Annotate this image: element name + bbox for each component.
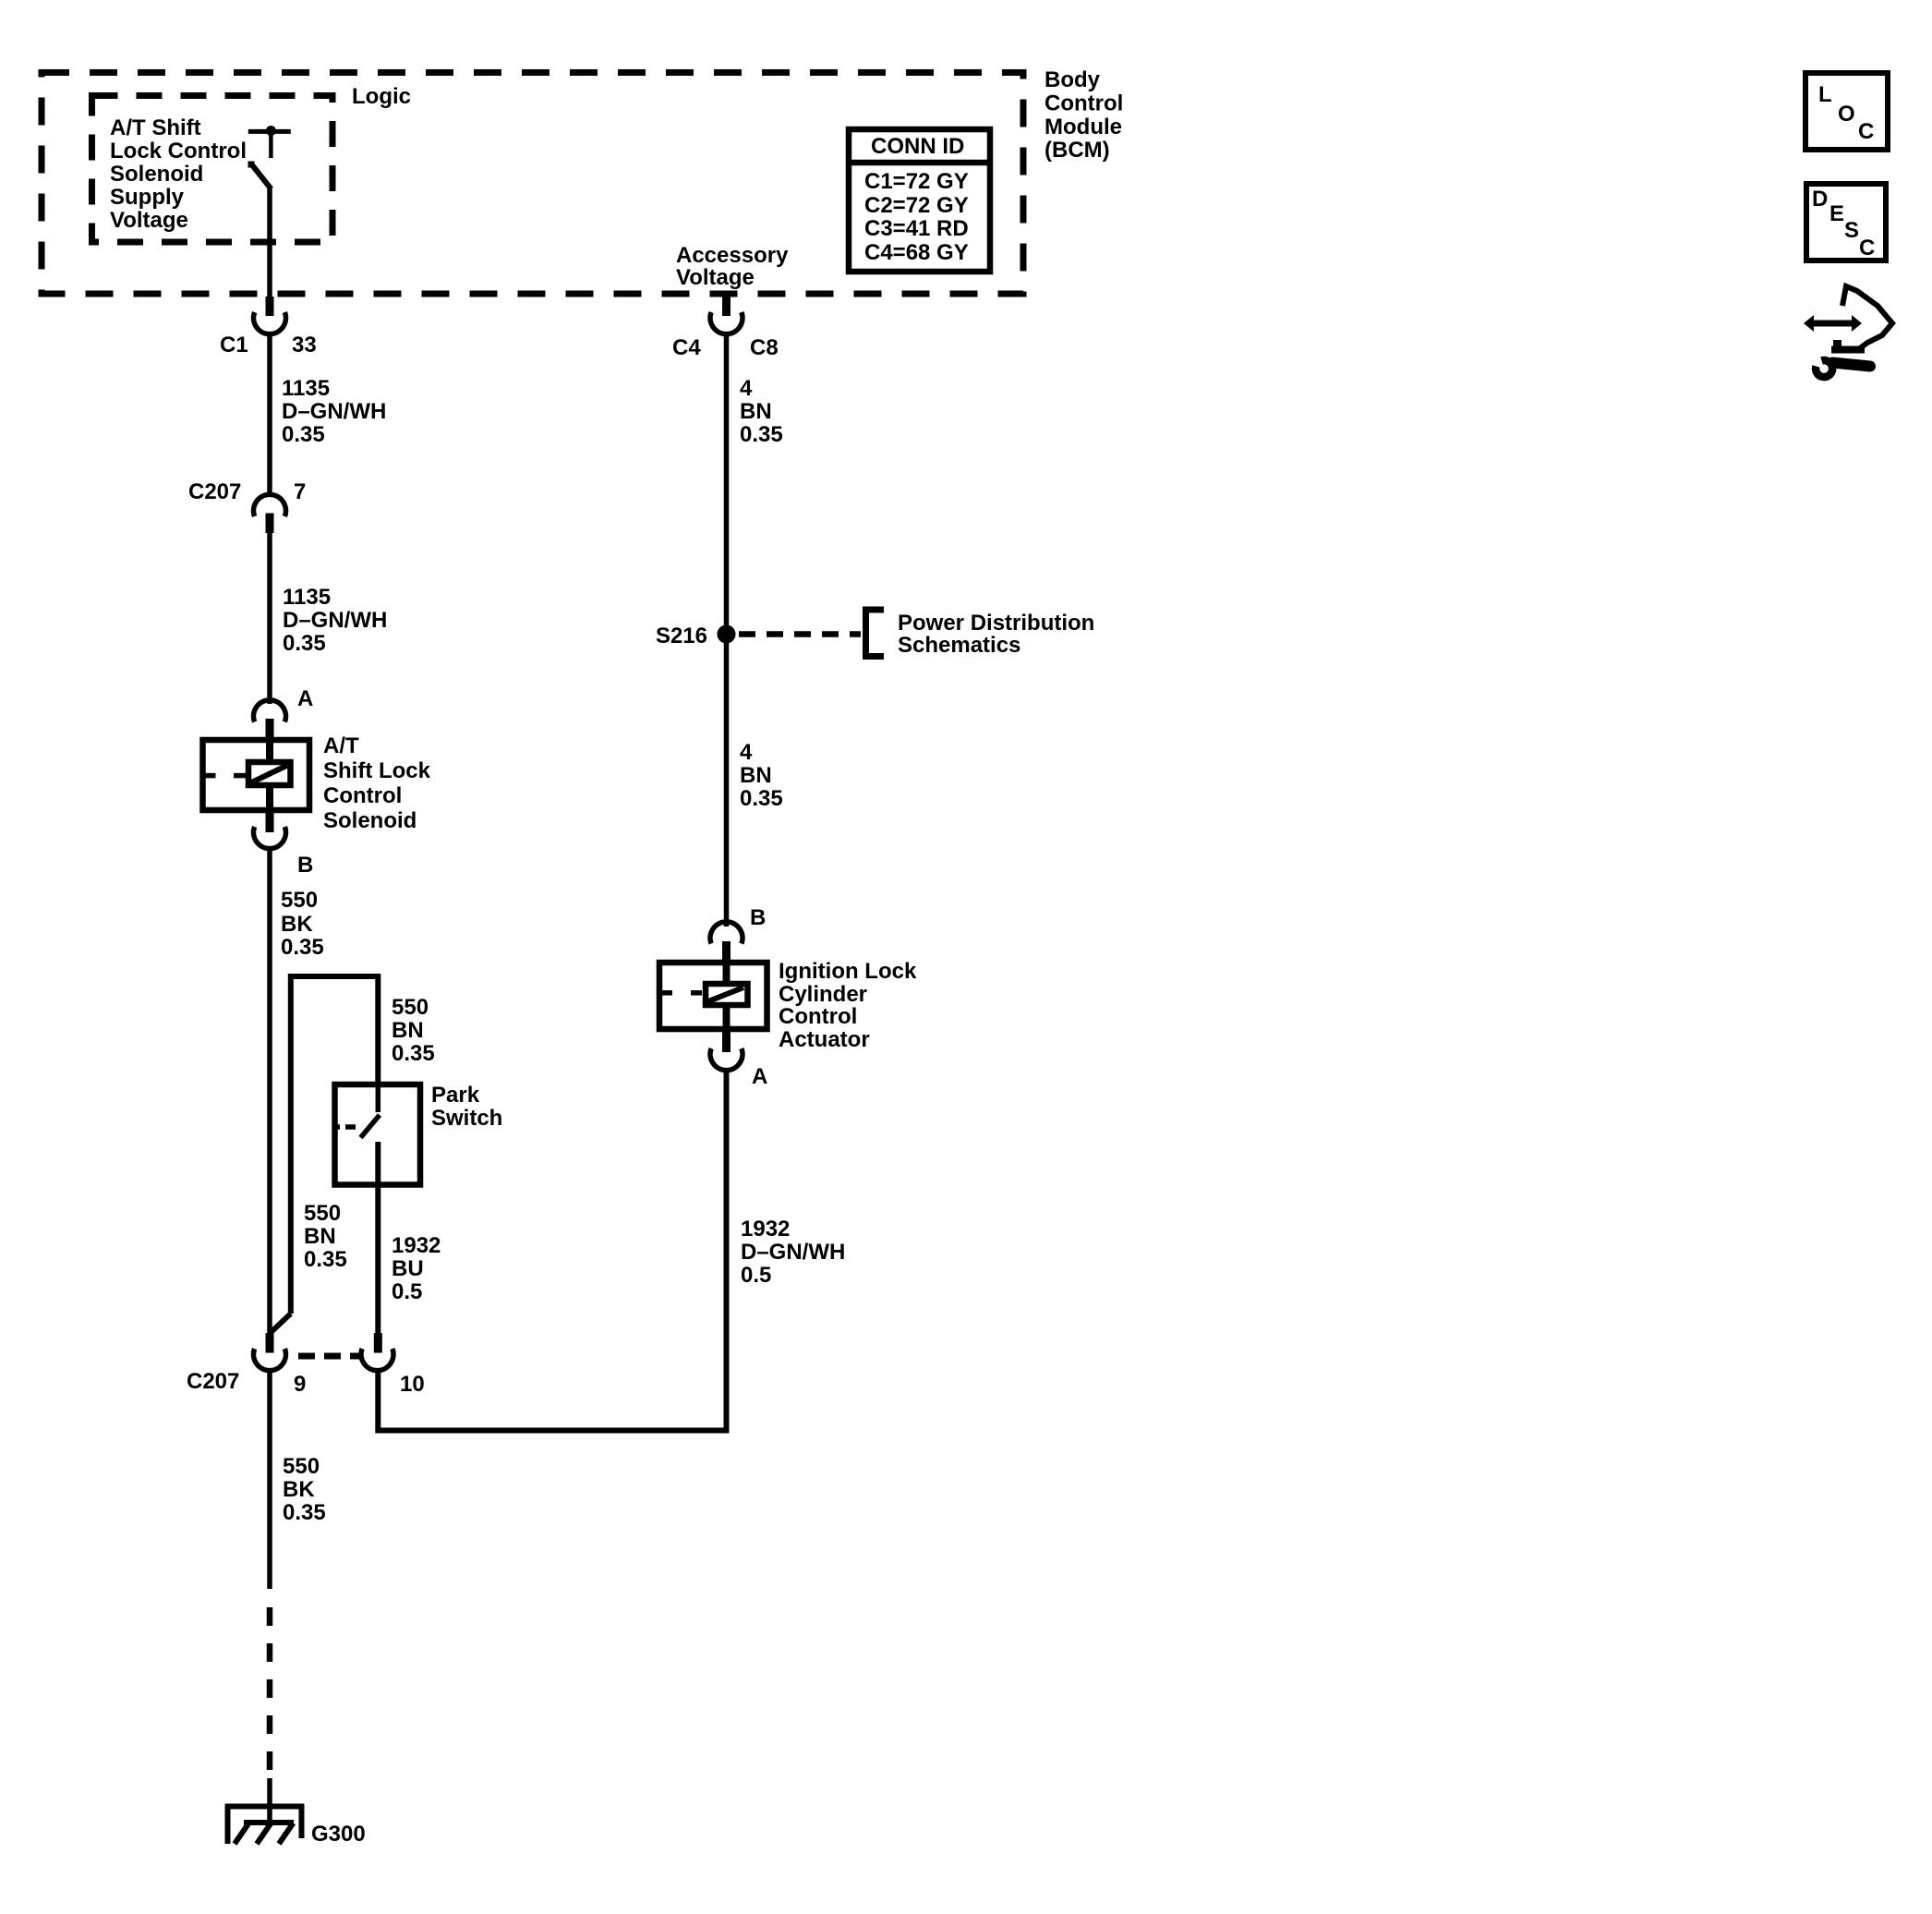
svg-text:BN: BN — [392, 1018, 424, 1043]
svg-text:Body: Body — [1044, 67, 1101, 92]
svg-text:C1: C1 — [220, 333, 248, 357]
svg-text:Voltage: Voltage — [676, 265, 755, 290]
svg-text:Control: Control — [779, 1004, 857, 1029]
svg-text:0.35: 0.35 — [283, 1500, 326, 1525]
svg-text:D–GN/WH: D–GN/WH — [282, 399, 386, 424]
svg-text:BN: BN — [740, 399, 772, 424]
svg-text:D: D — [1812, 187, 1828, 212]
svg-text:BN: BN — [304, 1224, 336, 1249]
svg-text:BK: BK — [283, 1477, 315, 1502]
svg-text:A/T: A/T — [323, 733, 359, 758]
svg-text:Supply: Supply — [110, 185, 185, 210]
svg-text:G300: G300 — [311, 1822, 366, 1847]
svg-text:0.5: 0.5 — [741, 1263, 771, 1288]
svg-text:D–GN/WH: D–GN/WH — [741, 1240, 845, 1265]
svg-text:Power Distribution: Power Distribution — [898, 611, 1094, 636]
svg-text:A: A — [297, 686, 313, 711]
svg-text:C4=68 GY: C4=68 GY — [864, 240, 969, 265]
svg-text:Module: Module — [1044, 115, 1122, 139]
svg-text:4: 4 — [740, 740, 753, 765]
svg-text:CONN ID: CONN ID — [871, 134, 964, 159]
svg-text:S: S — [1844, 218, 1859, 243]
svg-text:C207: C207 — [188, 479, 241, 504]
svg-text:Actuator: Actuator — [779, 1027, 870, 1052]
svg-text:Switch: Switch — [431, 1106, 502, 1131]
svg-text:Solenoid: Solenoid — [110, 162, 203, 187]
svg-text:0.35: 0.35 — [281, 935, 324, 960]
svg-text:B: B — [297, 853, 313, 878]
svg-text:Cylinder: Cylinder — [779, 982, 867, 1007]
svg-text:Schematics: Schematics — [898, 633, 1020, 658]
svg-text:C: C — [1859, 236, 1875, 260]
svg-text:O: O — [1838, 102, 1855, 127]
svg-text:Voltage: Voltage — [110, 208, 188, 233]
svg-text:C2=72 GY: C2=72 GY — [864, 193, 969, 218]
svg-text:S216: S216 — [656, 624, 707, 648]
svg-text:4: 4 — [740, 376, 753, 401]
svg-text:1135: 1135 — [282, 376, 330, 401]
svg-text:Accessory: Accessory — [676, 243, 789, 268]
svg-text:E: E — [1829, 201, 1844, 226]
svg-text:Lock Control: Lock Control — [110, 139, 247, 164]
svg-text:550: 550 — [392, 995, 429, 1020]
svg-text:1932: 1932 — [392, 1233, 441, 1258]
svg-text:B: B — [750, 905, 766, 930]
svg-text:Park: Park — [431, 1083, 480, 1108]
svg-text:0.35: 0.35 — [392, 1041, 435, 1066]
svg-text:L: L — [1818, 82, 1832, 107]
svg-text:C: C — [1858, 119, 1874, 144]
svg-text:Ignition Lock: Ignition Lock — [779, 959, 917, 984]
svg-text:1135: 1135 — [283, 585, 331, 610]
svg-text:33: 33 — [292, 333, 317, 357]
svg-text:Shift Lock: Shift Lock — [323, 758, 431, 783]
svg-text:A: A — [752, 1064, 767, 1089]
svg-text:0.35: 0.35 — [740, 422, 783, 447]
svg-text:0.35: 0.35 — [283, 631, 326, 656]
svg-text:550: 550 — [304, 1201, 341, 1226]
svg-text:BK: BK — [281, 912, 313, 937]
svg-text:A/T Shift: A/T Shift — [110, 115, 201, 140]
svg-text:0.35: 0.35 — [304, 1247, 347, 1272]
svg-text:550: 550 — [281, 888, 318, 913]
svg-text:10: 10 — [400, 1372, 425, 1397]
svg-text:(BCM): (BCM) — [1044, 138, 1110, 163]
svg-text:9: 9 — [294, 1372, 306, 1397]
svg-text:C3=41 RD: C3=41 RD — [864, 216, 969, 241]
svg-text:1932: 1932 — [741, 1217, 790, 1242]
svg-text:0.35: 0.35 — [282, 422, 325, 447]
svg-text:Control: Control — [323, 783, 402, 808]
svg-text:D–GN/WH: D–GN/WH — [283, 608, 387, 633]
svg-text:Logic: Logic — [352, 84, 411, 109]
svg-text:0.5: 0.5 — [392, 1279, 422, 1304]
svg-text:C207: C207 — [187, 1369, 239, 1394]
svg-text:C4: C4 — [672, 335, 701, 360]
svg-text:0.35: 0.35 — [740, 786, 783, 811]
svg-text:BU: BU — [392, 1256, 424, 1281]
svg-text:C1=72 GY: C1=72 GY — [864, 169, 969, 194]
svg-text:7: 7 — [294, 479, 306, 504]
svg-text:Solenoid: Solenoid — [323, 808, 417, 833]
svg-text:BN: BN — [740, 763, 772, 788]
svg-text:Control: Control — [1044, 91, 1123, 116]
svg-text:C8: C8 — [750, 335, 779, 360]
svg-text:550: 550 — [283, 1454, 320, 1479]
